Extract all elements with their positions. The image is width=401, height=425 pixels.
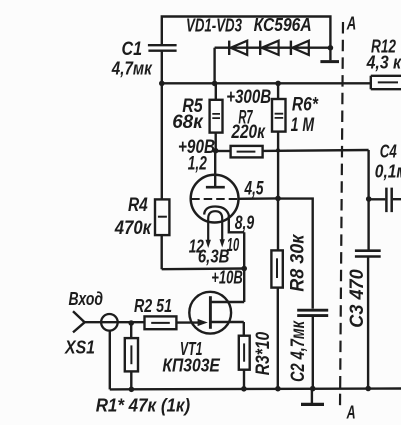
svg-text:A: A xyxy=(346,403,356,423)
diode VD1 xyxy=(229,41,247,55)
wire input to R2 xyxy=(85,321,145,323)
VT1 channel bar xyxy=(209,296,212,329)
heater arrow pin 12 xyxy=(206,240,211,248)
capacitor C3 xyxy=(355,251,381,389)
wire cathode node vertical xyxy=(243,232,245,302)
wire ground bus bottom xyxy=(110,387,401,390)
node junction R5/R7/anode xyxy=(213,148,219,154)
svg-text:Вход: Вход xyxy=(69,288,104,309)
svg-text:4,3 к: 4,3 к xyxy=(366,51,401,72)
svg-text:C3 470: C3 470 xyxy=(347,269,368,328)
svg-text:A: A xyxy=(346,14,356,34)
node diode chain right end xyxy=(328,45,334,51)
tube grid dashed xyxy=(191,198,238,200)
fold dashed line A-A xyxy=(340,22,343,408)
resistor R7 xyxy=(216,146,369,158)
svg-text:R8 30к: R8 30к xyxy=(287,233,308,291)
resistor R3 xyxy=(239,336,250,389)
wire grid branch to C2 xyxy=(278,199,313,309)
node grid junction xyxy=(275,196,281,202)
svg-text:C2 4,7мк: C2 4,7мк xyxy=(288,320,309,382)
svg-text:КП303Е: КП303Е xyxy=(162,354,220,375)
svg-text:R6*: R6* xyxy=(292,95,319,116)
node R3 bottom junction xyxy=(241,386,247,392)
node R1 top junction xyxy=(128,320,134,326)
wire XS1 shell drop xyxy=(109,331,111,390)
wire R7 to C3 vertical xyxy=(367,150,369,250)
svg-text:1 М: 1 М xyxy=(291,115,315,136)
svg-text:R2 51: R2 51 xyxy=(134,295,172,316)
capacitor C4 xyxy=(369,188,401,213)
node R8 bottom junction xyxy=(275,386,281,392)
node C4 tap junction xyxy=(366,196,372,202)
svg-text:68к: 68к xyxy=(172,112,204,133)
node junction C1/rail xyxy=(159,81,165,87)
wire R4 bottom to cathode node xyxy=(162,267,245,270)
node R1 bottom junction xyxy=(129,387,135,393)
node C3 bottom junction xyxy=(365,386,371,392)
tube heater loop xyxy=(208,211,222,241)
ground symbol xyxy=(301,389,324,405)
VT1 drain wire xyxy=(210,301,244,303)
node junction R6/R7 crossing xyxy=(276,148,280,152)
svg-text:4,7мк: 4,7мк xyxy=(111,58,153,79)
transistor VT1 envelope xyxy=(189,292,231,334)
wire anode lead xyxy=(214,151,216,187)
svg-text:КС596А: КС596А xyxy=(254,15,312,35)
svg-text:R3*10: R3*10 xyxy=(253,331,274,375)
resistor R8 xyxy=(271,198,282,388)
chassis bar under diode chain xyxy=(320,48,339,62)
svg-text:0,1мк: 0,1мк xyxy=(375,161,401,182)
svg-text:VD1-VD3: VD1-VD3 xyxy=(186,16,242,36)
svg-text:R4: R4 xyxy=(128,195,148,216)
wire top loop from C1 to diode chain right end xyxy=(162,17,331,48)
tube anode plate bar xyxy=(206,186,225,189)
node C2 bottom junction xyxy=(310,386,316,392)
svg-text:220к: 220к xyxy=(231,122,266,143)
node junction diode-drop/R5/rail xyxy=(212,81,218,87)
node +10V junction xyxy=(241,266,247,272)
heater arrow pin 10 xyxy=(220,239,225,247)
wire grid to junction xyxy=(239,197,279,200)
svg-text:4,5: 4,5 xyxy=(244,179,264,200)
VT1 gate wire xyxy=(177,321,202,323)
diode VD2 xyxy=(260,41,278,55)
svg-text:1,2: 1,2 xyxy=(188,154,207,175)
connector XS1 circle xyxy=(101,314,118,331)
svg-text:470к: 470к xyxy=(114,218,152,239)
wire diode chain drop to rail xyxy=(213,48,215,84)
wire +300V rail xyxy=(162,82,371,84)
diode VD3 xyxy=(291,41,309,55)
svg-text:6,3В: 6,3В xyxy=(198,246,230,267)
input chevron xyxy=(73,311,85,332)
resistor R4 xyxy=(155,83,169,269)
resistor R5 xyxy=(210,83,223,150)
VT1 gate arrow xyxy=(198,319,208,326)
resistor R6 xyxy=(272,83,286,198)
resistor R1 xyxy=(125,323,138,389)
capacitor C2 xyxy=(297,310,328,388)
svg-text:+300В: +300В xyxy=(226,87,271,108)
VT1 source wire xyxy=(210,322,243,336)
capacitor C1 xyxy=(148,45,177,83)
wire diode chain horizontal xyxy=(215,47,331,49)
svg-text:8,9: 8,9 xyxy=(235,213,255,234)
resistor R2 xyxy=(145,316,177,329)
svg-text:R1* 47к (1к): R1* 47к (1к) xyxy=(96,395,191,416)
vacuum tube envelope xyxy=(191,175,239,223)
tube cathode arc xyxy=(204,206,229,216)
node junction R6/rail xyxy=(275,81,281,87)
resistor R12 (cut at right edge) xyxy=(371,76,401,89)
svg-text:C4: C4 xyxy=(380,140,397,161)
svg-text:XS1: XS1 xyxy=(64,336,95,357)
wire cathode exit xyxy=(229,216,244,233)
